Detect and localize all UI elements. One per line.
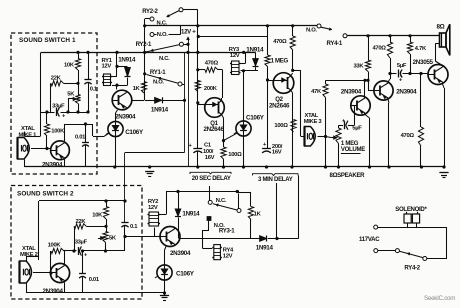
- svg-text:2N3904: 2N3904: [170, 250, 191, 257]
- svg-text:47K: 47K: [311, 89, 322, 95]
- svg-text:5µF: 5µF: [352, 125, 362, 131]
- svg-text:1 MEG: 1 MEG: [271, 59, 289, 65]
- svg-text:12V: 12V: [223, 253, 233, 259]
- svg-text:0.1: 0.1: [90, 86, 98, 92]
- svg-text:RY4-2: RY4-2: [404, 266, 420, 272]
- svg-text:8ΩSPEAKER: 8ΩSPEAKER: [330, 173, 366, 179]
- svg-text:5K: 5K: [67, 92, 75, 98]
- svg-text:RY2-1: RY2-1: [136, 42, 152, 48]
- svg-text:RY3-1: RY3-1: [219, 229, 235, 235]
- svg-text:2N3904: 2N3904: [115, 114, 136, 121]
- svg-text:1K: 1K: [133, 86, 141, 92]
- svg-text:RY2-2: RY2-2: [142, 9, 158, 15]
- svg-text:0.1: 0.1: [130, 224, 138, 230]
- svg-text:1N914: 1N914: [182, 211, 200, 218]
- svg-text:2N3055: 2N3055: [413, 59, 434, 66]
- svg-text:10K: 10K: [64, 62, 75, 68]
- svg-text:33K: 33K: [354, 63, 365, 69]
- svg-text:C106Y: C106Y: [246, 114, 265, 121]
- svg-text:0.01: 0.01: [75, 135, 86, 141]
- svg-text:470Ω: 470Ω: [205, 61, 219, 67]
- svg-text:C1: C1: [204, 143, 212, 149]
- svg-text:0.01: 0.01: [89, 277, 100, 283]
- svg-text:33µF: 33µF: [75, 240, 88, 246]
- svg-text:N.O.: N.O.: [157, 32, 168, 38]
- svg-text:1N914: 1N914: [256, 244, 274, 251]
- svg-text:2N3904: 2N3904: [42, 161, 63, 168]
- svg-text:C106Y: C106Y: [125, 129, 144, 136]
- svg-text:12V: 12V: [230, 53, 240, 59]
- svg-text:100Ω: 100Ω: [274, 123, 288, 129]
- svg-text:1K: 1K: [254, 212, 262, 218]
- svg-text:100Ω: 100Ω: [228, 152, 242, 158]
- svg-text:1N914: 1N914: [151, 107, 169, 114]
- svg-text:200K: 200K: [204, 86, 218, 92]
- svg-text:20 SEC DELAY: 20 SEC DELAY: [192, 176, 231, 182]
- svg-text:100K: 100K: [48, 243, 62, 249]
- svg-text:1 MEG: 1 MEG: [341, 141, 359, 147]
- svg-text:16V: 16V: [272, 150, 282, 156]
- svg-text:2N3904: 2N3904: [43, 288, 64, 295]
- svg-text:12V: 12V: [102, 64, 112, 70]
- svg-text:470Ω: 470Ω: [373, 46, 387, 52]
- svg-text:XTAL: XTAL: [21, 126, 35, 132]
- svg-text:22K: 22K: [51, 75, 62, 81]
- svg-text:8Ω: 8Ω: [437, 24, 445, 31]
- svg-text:N.O.: N.O.: [153, 80, 164, 86]
- svg-text:470Ω: 470Ω: [273, 39, 287, 45]
- svg-text:10K: 10K: [92, 212, 103, 218]
- svg-text:SOUND SWITCH 2: SOUND SWITCH 2: [17, 190, 74, 197]
- svg-text:1N914: 1N914: [118, 56, 136, 63]
- svg-text:12V: 12V: [148, 205, 158, 211]
- svg-text:5K: 5K: [109, 236, 117, 242]
- svg-text:MIKE 3: MIKE 3: [304, 119, 323, 125]
- svg-text:SOLENOID*: SOLENOID*: [395, 207, 427, 213]
- svg-text:117VAC: 117VAC: [359, 237, 380, 243]
- svg-text:SOUND SWITCH 1: SOUND SWITCH 1: [19, 37, 76, 44]
- svg-text:RY1-1: RY1-1: [150, 70, 166, 76]
- svg-text:16V: 16V: [205, 155, 215, 161]
- svg-text:1N914: 1N914: [246, 46, 264, 53]
- svg-text:RY4-1: RY4-1: [327, 41, 343, 47]
- svg-text:2N3904: 2N3904: [341, 89, 362, 96]
- svg-text:4.7K: 4.7K: [415, 46, 427, 52]
- svg-text:2N2646: 2N2646: [269, 103, 290, 110]
- svg-text:N.C.: N.C.: [159, 56, 170, 62]
- svg-text:100K: 100K: [51, 129, 65, 135]
- svg-text:2N3904: 2N3904: [396, 89, 417, 96]
- svg-text:5µF: 5µF: [397, 63, 407, 69]
- svg-text:VOLUME: VOLUME: [341, 147, 365, 153]
- svg-text:12V +: 12V +: [181, 29, 196, 35]
- svg-text:N.C.: N.C.: [216, 198, 227, 204]
- svg-text:3 MIN DELAY: 3 MIN DELAY: [258, 177, 293, 183]
- svg-text:N.O.: N.O.: [306, 27, 317, 33]
- svg-text:N.C.: N.C.: [157, 20, 168, 26]
- svg-text:SeekIC.com: SeekIC.com: [424, 295, 455, 302]
- svg-text:2N2646: 2N2646: [204, 126, 225, 133]
- svg-text:C106Y: C106Y: [176, 270, 195, 277]
- svg-text:470Ω: 470Ω: [401, 133, 415, 139]
